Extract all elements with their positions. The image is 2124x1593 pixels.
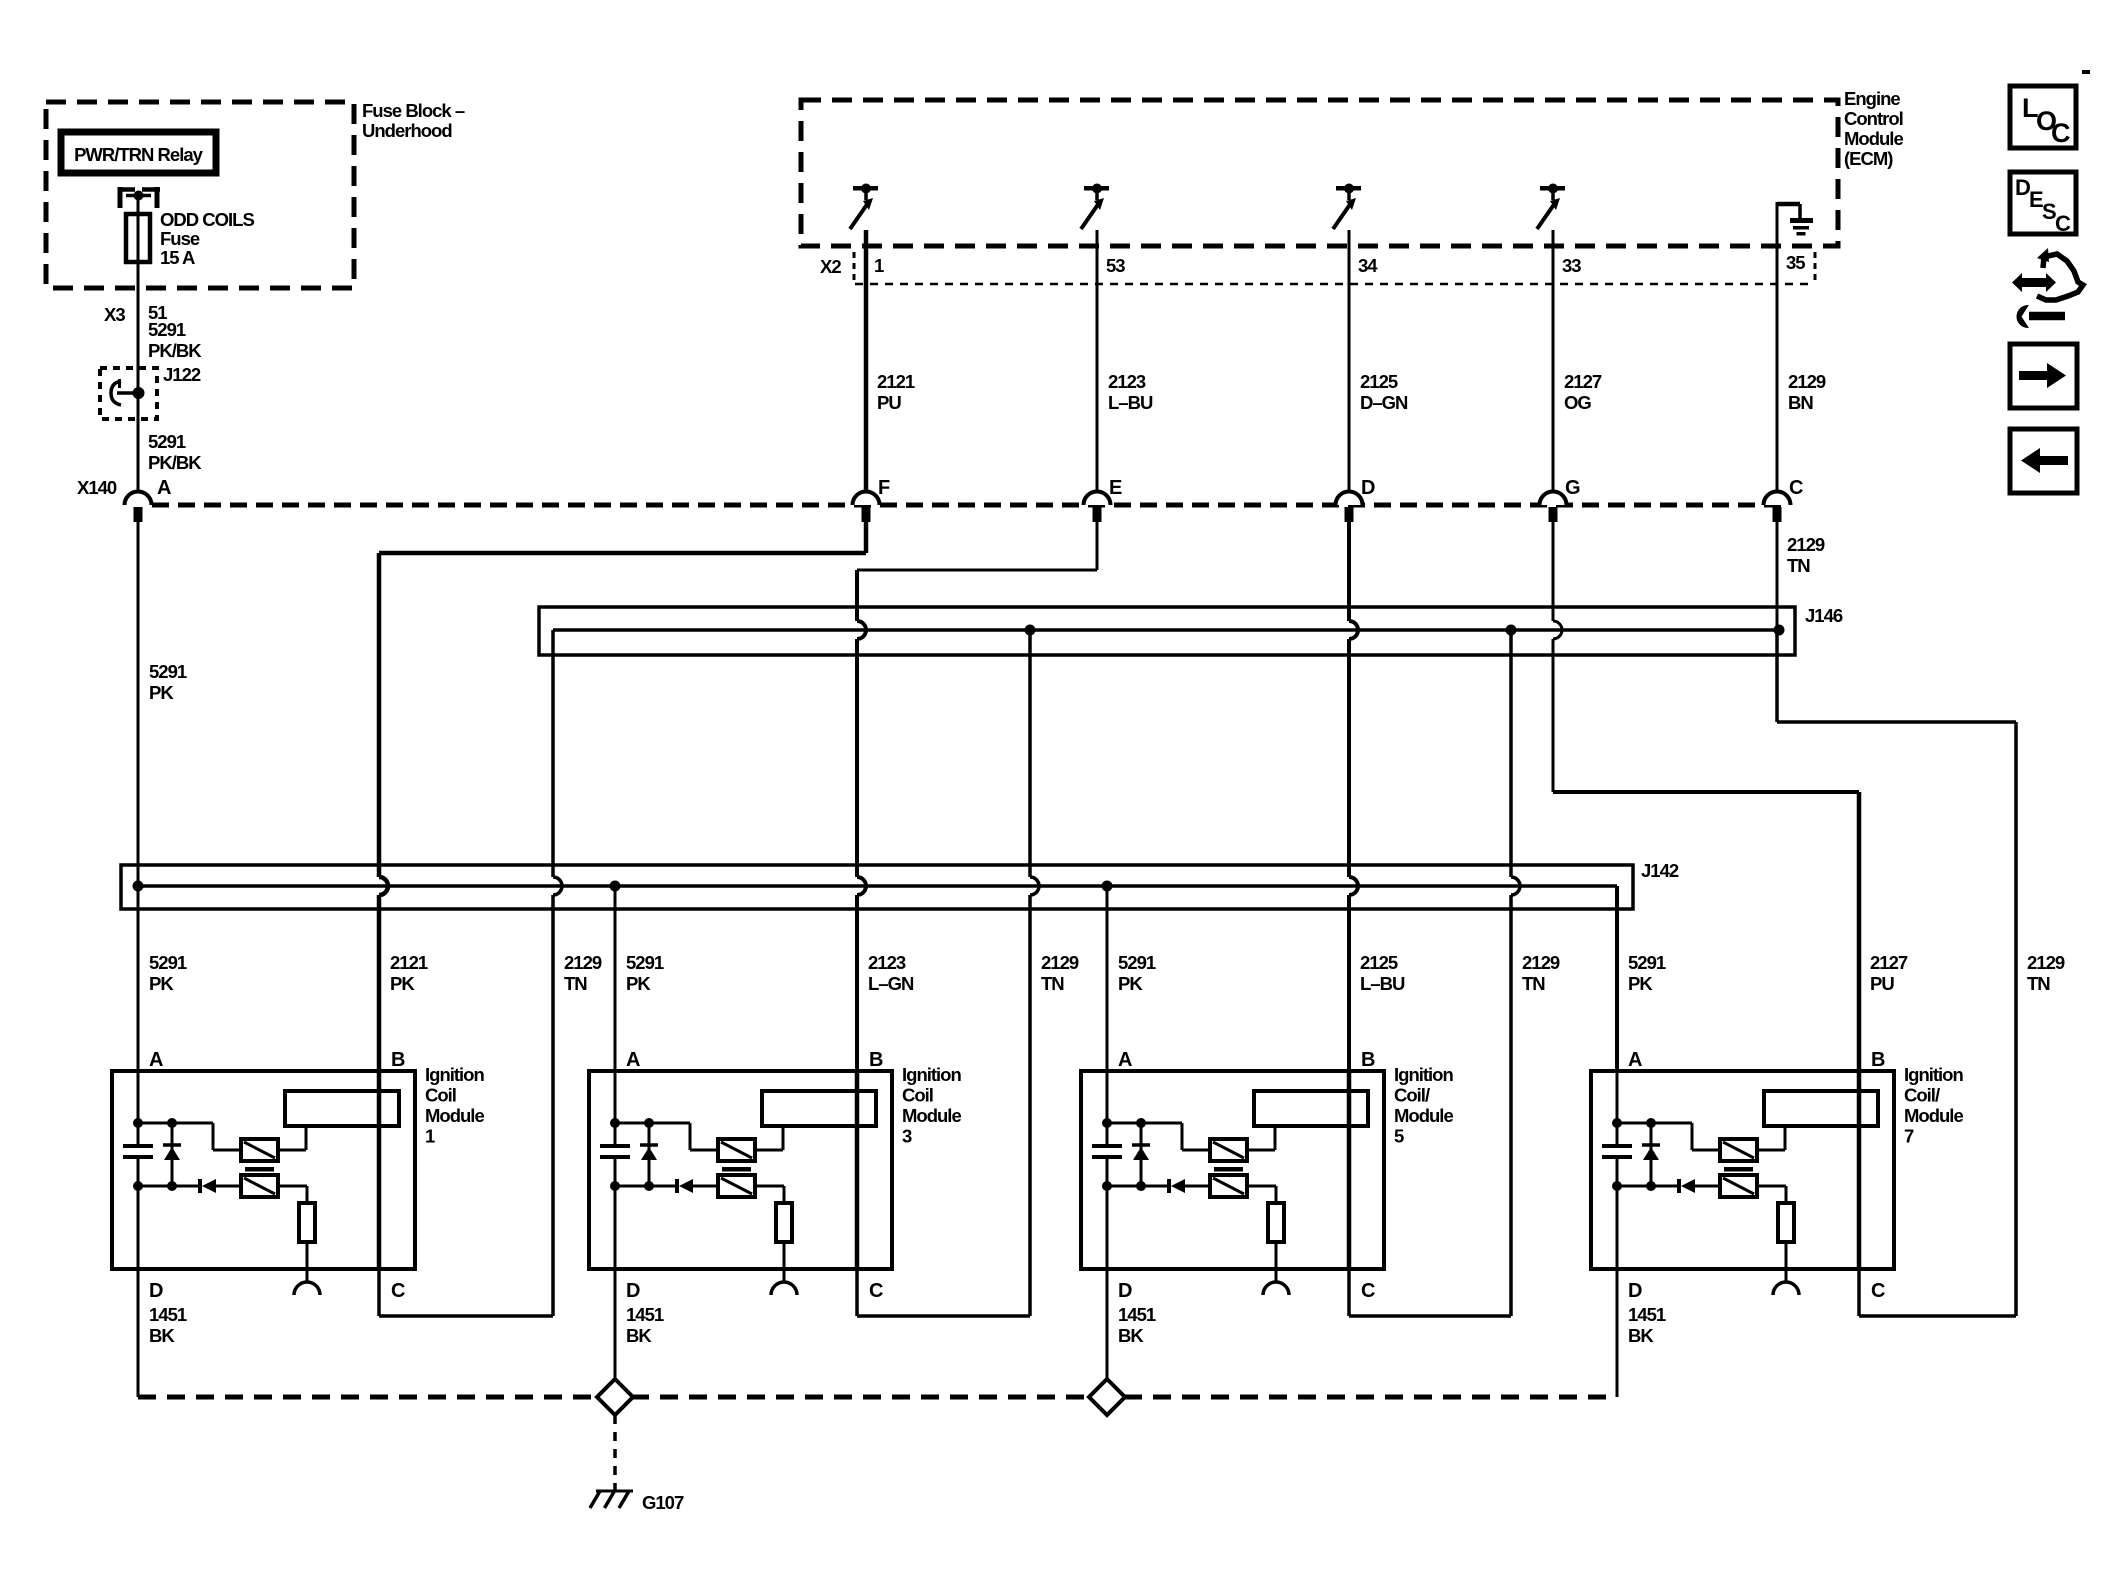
label pin A coil 5	[1118, 1049, 1132, 1071]
node coil3 cap bottom	[610, 1181, 620, 1191]
svg-text:Ignition: Ignition	[1394, 1064, 1453, 1085]
wire secondary to resistor coil 3	[755, 1186, 784, 1203]
svg-text:A: A	[157, 477, 171, 499]
label pin C coil 5	[1361, 1280, 1375, 1302]
svg-text:Coil/: Coil/	[1394, 1085, 1430, 1106]
control block coil 5	[1254, 1091, 1368, 1126]
svg-text:53: 53	[1106, 255, 1125, 276]
wire primary to control block coil 7	[1757, 1126, 1785, 1150]
X140 terminal C	[1764, 491, 1791, 522]
label X2 pin 34	[1358, 255, 1378, 276]
svg-text:A: A	[1628, 1049, 1642, 1071]
label Ignition Coil Module 5	[1394, 1064, 1453, 1147]
svg-text:1451: 1451	[1118, 1304, 1156, 1325]
svg-text:2129: 2129	[1787, 534, 1825, 555]
svg-text:2129: 2129	[1041, 952, 1079, 973]
capacitor coil 3	[600, 1146, 630, 1157]
label 2121 coil 1	[390, 952, 428, 994]
icon left arrow box	[2010, 429, 2077, 493]
svg-text:PU: PU	[1870, 973, 1894, 994]
node coil1 cap top	[133, 1118, 143, 1128]
spark plug gap coil 5	[1263, 1282, 1289, 1295]
node J142 a5 junction	[1102, 881, 1113, 892]
label X2 pin 53	[1106, 255, 1125, 276]
svg-text:1: 1	[874, 255, 884, 276]
svg-text:TN: TN	[1522, 973, 1545, 994]
svg-text:L–BU: L–BU	[1108, 392, 1153, 413]
label pin C	[1789, 477, 1803, 499]
label 5291 PK coil 7	[1628, 952, 1666, 994]
label pin A coil 1	[149, 1049, 163, 1071]
svg-text:C: C	[1361, 1280, 1375, 1302]
svg-text:D–GN: D–GN	[1360, 392, 1408, 413]
svg-text:J142: J142	[1641, 860, 1679, 881]
wire primary to control block coil 5	[1247, 1126, 1275, 1150]
ground G107 symbol	[590, 1491, 633, 1508]
label pin C coil 1	[391, 1280, 405, 1302]
wire pin B through coil 3	[855, 1071, 860, 1269]
svg-text:Module: Module	[1844, 128, 1903, 149]
label 2123 coil 3	[868, 952, 914, 994]
svg-text:J146: J146	[1805, 605, 1843, 626]
svg-text:TN: TN	[564, 973, 587, 994]
svg-text:Fuse Block –: Fuse Block –	[362, 100, 465, 121]
PWR/TRN Relay box	[61, 132, 216, 173]
wire 5291 PK to coil3 A	[614, 886, 617, 1071]
label 2129 TN riser coil 7	[2027, 952, 2065, 994]
svg-text:2127: 2127	[1564, 371, 1602, 392]
svg-text:C: C	[2051, 118, 2071, 148]
diode coil 5	[1107, 1179, 1210, 1193]
svg-text:C: C	[1789, 477, 1803, 499]
label pin C coil 7	[1871, 1280, 1885, 1302]
icon right arrow box	[2010, 344, 2077, 408]
wire diamond to G107	[613, 1415, 617, 1490]
svg-text:Ignition: Ignition	[1904, 1064, 1963, 1085]
node coil3 cap top	[610, 1118, 620, 1128]
label Fuse Block - Underhood	[362, 100, 465, 141]
label pin A	[157, 477, 171, 499]
svg-text:34: 34	[1358, 255, 1378, 276]
capacitor coil 1	[123, 1146, 153, 1157]
svg-text:35: 35	[1786, 252, 1805, 273]
label 5291 PK coil 5	[1118, 952, 1156, 994]
svg-text:X2: X2	[820, 256, 841, 277]
diode coil 1	[138, 1179, 241, 1193]
label 2127 OG	[1564, 371, 1602, 413]
wire pin C drop coil 3	[855, 1269, 859, 1316]
wire pin A feed coil 3	[614, 1071, 617, 1269]
wire pin B through coil 5	[1347, 1071, 1352, 1269]
wire pin C drop coil 5	[1347, 1269, 1351, 1316]
label pin D coil 1	[149, 1280, 163, 1302]
svg-text:BK: BK	[1628, 1325, 1654, 1346]
label X2 pin 33	[1562, 255, 1581, 276]
svg-text:5291: 5291	[1628, 952, 1666, 973]
zener diode coil 5	[1132, 1123, 1150, 1186]
Engine Control Module dashed enclosure	[801, 100, 1838, 246]
wire 2125 D straight	[1349, 522, 1358, 1071]
svg-text:C: C	[869, 1280, 883, 1302]
label pin B coil 5	[1361, 1049, 1375, 1071]
label 1451 BK coil 7	[1628, 1304, 1666, 1346]
label pin G	[1565, 477, 1581, 499]
splice diamond coil3 ground	[597, 1379, 633, 1415]
svg-text:PK: PK	[626, 973, 651, 994]
node J146 r5 junction	[1506, 625, 1517, 636]
svg-text:2129: 2129	[564, 952, 602, 973]
spark plug gap coil 7	[1773, 1282, 1799, 1295]
svg-text:15 A: 15 A	[160, 247, 195, 268]
svg-text:PK: PK	[149, 973, 174, 994]
svg-text:Module: Module	[1394, 1105, 1453, 1126]
capacitor coil 7	[1602, 1146, 1632, 1157]
label 5291 PK feed	[149, 661, 187, 703]
wire 2129 TN path coil7	[1777, 630, 2016, 1316]
transformer secondary coil 3	[718, 1175, 755, 1197]
splice J142 inner conductor	[138, 886, 1617, 1071]
svg-text:PK: PK	[390, 973, 415, 994]
splice J122 terminal	[111, 379, 145, 405]
icon double arrow	[2012, 273, 2056, 292]
wire 2129 BN pin35 to X140-C	[1776, 246, 1779, 492]
label 2127 coil 7	[1870, 952, 1908, 994]
label 2129 TN upper	[1787, 534, 1825, 576]
capacitor coil 5	[1092, 1146, 1122, 1157]
svg-text:L–BU: L–BU	[1360, 973, 1405, 994]
wire 2127 OG pin33 to X140-G	[1552, 230, 1555, 492]
svg-text:C: C	[391, 1280, 405, 1302]
spark plug gap coil 1	[294, 1282, 320, 1295]
svg-text:Ignition: Ignition	[902, 1064, 961, 1085]
wire pin D to ground bus coil 1	[137, 1269, 140, 1397]
svg-text:C: C	[1871, 1280, 1885, 1302]
svg-text:A: A	[1118, 1049, 1132, 1071]
splice J146 housing	[539, 607, 1795, 655]
wire fuse to X140-A	[137, 262, 140, 492]
svg-text:(ECM): (ECM)	[1844, 148, 1893, 169]
wire primary to control block coil 1	[278, 1126, 306, 1150]
control block coil 3	[762, 1091, 876, 1126]
svg-text:2123: 2123	[868, 952, 906, 973]
ignition coil module 3 box	[589, 1071, 892, 1269]
label 1451 BK coil 3	[626, 1304, 664, 1346]
svg-text:Module: Module	[425, 1105, 484, 1126]
wire cap to primary coil 7	[1617, 1123, 1720, 1150]
label Engine Control Module (ECM)	[1844, 88, 1903, 169]
label pin 51	[148, 302, 167, 323]
svg-text:2129: 2129	[1788, 371, 1826, 392]
svg-text:D: D	[1361, 477, 1375, 499]
label Ignition Coil Module 7	[1904, 1064, 1963, 1147]
ignition coil module 5 box	[1081, 1071, 1384, 1269]
wire pin C drop coil 1	[377, 1269, 381, 1316]
svg-text:PU: PU	[877, 392, 901, 413]
wire 2129 TN X140-C to J146	[1776, 522, 1779, 630]
wire pin D to ground bus coil 7	[1616, 1269, 1619, 1397]
wire pin B through coil 1	[377, 1071, 382, 1269]
zener diode coil 3	[640, 1123, 658, 1186]
label 2129 TN riser coil 5	[1522, 952, 1560, 994]
svg-text:C: C	[2055, 211, 2071, 236]
wire resistor to spark gap coil 3	[783, 1242, 786, 1282]
svg-text:3: 3	[902, 1126, 912, 1147]
zener diode coil 1	[163, 1123, 181, 1186]
svg-text:Coil: Coil	[902, 1085, 933, 1106]
wire 2121 PU pin1 to X140-F	[864, 230, 869, 492]
svg-text:B: B	[391, 1049, 405, 1071]
svg-text:2125: 2125	[1360, 371, 1398, 392]
node J146 right junction	[1774, 625, 1785, 636]
svg-text:Coil/: Coil/	[1904, 1085, 1940, 1106]
svg-text:TN: TN	[2027, 973, 2050, 994]
transformer primary coil 3	[718, 1139, 755, 1161]
svg-text:2127: 2127	[1870, 952, 1908, 973]
ignition coil module 7 box	[1591, 1071, 1894, 1269]
svg-text:2129: 2129	[1522, 952, 1560, 973]
svg-text:BN: BN	[1788, 392, 1813, 413]
wire 2129 TN riser coil1	[379, 630, 562, 1316]
svg-text:7: 7	[1904, 1126, 1914, 1147]
label J146	[1805, 605, 1843, 626]
transformer core coil 1	[245, 1167, 274, 1172]
wire 2121 staircase F	[379, 522, 866, 1071]
svg-text:X140: X140	[77, 477, 117, 498]
spark plug gap coil 3	[771, 1282, 797, 1295]
transformer primary coil 7	[1720, 1139, 1757, 1161]
svg-text:2121: 2121	[390, 952, 428, 973]
svg-text:Fuse: Fuse	[160, 228, 200, 249]
X140 connector row dashed line	[152, 503, 1790, 508]
wire cap to primary coil 1	[138, 1123, 241, 1150]
svg-text:5291: 5291	[149, 952, 187, 973]
node coil5 zener bottom	[1136, 1181, 1146, 1191]
label 2121 PU	[877, 371, 915, 413]
label G107	[642, 1492, 684, 1513]
label 2129 TN riser coil 3	[1041, 952, 1079, 994]
svg-text:G: G	[1565, 477, 1581, 499]
wire pin A feed coil 5	[1106, 1071, 1109, 1269]
splice J146 inner conductor	[553, 628, 1779, 632]
svg-text:PWR/TRN Relay: PWR/TRN Relay	[74, 144, 204, 165]
label 5291 PK/BK upper	[148, 319, 202, 361]
ignition coil module 1 box	[112, 1071, 415, 1269]
svg-text:ODD COILS: ODD COILS	[160, 209, 254, 230]
svg-text:X3: X3	[104, 304, 125, 325]
label X2 pin 1	[874, 255, 884, 276]
icon LOC box	[2010, 86, 2076, 148]
label 2125 coil 5	[1360, 952, 1405, 994]
svg-text:Ignition: Ignition	[425, 1064, 484, 1085]
label pin B coil 3	[869, 1049, 883, 1071]
control block coil 1	[285, 1091, 399, 1126]
X140 terminal E	[1084, 491, 1111, 522]
svg-text:5291: 5291	[148, 431, 186, 452]
wire pin B through coil 7	[1857, 1071, 1862, 1269]
transformer primary coil 1	[241, 1139, 278, 1161]
svg-text:PK: PK	[1118, 973, 1143, 994]
svg-text:L–GN: L–GN	[868, 973, 914, 994]
label 2125 D-GN	[1360, 371, 1408, 413]
svg-text:1451: 1451	[149, 1304, 187, 1325]
ECM driver switch pin 53	[1081, 184, 1109, 230]
svg-text:2121: 2121	[877, 371, 915, 392]
label pin D	[1361, 477, 1375, 499]
svg-text:Module: Module	[902, 1105, 961, 1126]
wire pin C drop coil 7	[1857, 1269, 1861, 1316]
label J142	[1641, 860, 1679, 881]
wire secondary to resistor coil 5	[1247, 1186, 1276, 1203]
svg-text:Module: Module	[1904, 1105, 1963, 1126]
label 2129 BN	[1788, 371, 1826, 413]
svg-text:Control: Control	[1844, 108, 1903, 129]
node coil7 zener top	[1646, 1118, 1656, 1128]
wire 2123 L-BU pin53 to X140-E	[1096, 230, 1099, 492]
label pin D coil 5	[1118, 1280, 1132, 1302]
svg-text:2123: 2123	[1108, 371, 1146, 392]
label pin B coil 1	[391, 1049, 405, 1071]
node coil7 cap top	[1612, 1118, 1622, 1128]
resistor coil 5	[1268, 1203, 1284, 1242]
transformer core coil 7	[1724, 1167, 1753, 1172]
svg-text:2125: 2125	[1360, 952, 1398, 973]
svg-text:J122: J122	[163, 364, 201, 385]
icon wrench	[2017, 306, 2065, 328]
label X3	[104, 304, 125, 325]
label X2 pin 35	[1786, 252, 1805, 273]
transformer primary coil 5	[1210, 1139, 1247, 1161]
node J142 A junction	[133, 881, 144, 892]
wire pin A feed coil 7	[1616, 1071, 1619, 1269]
X140 terminal G	[1540, 491, 1567, 522]
node J146 r3 junction	[1025, 625, 1036, 636]
label 1451 BK coil 1	[149, 1304, 187, 1346]
label 1451 BK coil 5	[1118, 1304, 1156, 1346]
svg-text:B: B	[1871, 1049, 1885, 1071]
svg-text:PK: PK	[149, 682, 174, 703]
label X140	[77, 477, 117, 498]
resistor coil 3	[776, 1203, 792, 1242]
node coil5 cap bottom	[1102, 1181, 1112, 1191]
svg-text:B: B	[1361, 1049, 1375, 1071]
svg-text:PK: PK	[1628, 973, 1653, 994]
wire cap to primary coil 5	[1107, 1123, 1210, 1150]
icon vehicle outline	[2037, 248, 2083, 300]
svg-text:PK/BK: PK/BK	[148, 452, 202, 473]
svg-text:2129: 2129	[2027, 952, 2065, 973]
wire secondary to resistor coil 1	[278, 1186, 307, 1203]
label pin C coil 3	[869, 1280, 883, 1302]
resistor coil 7	[1778, 1203, 1794, 1242]
svg-text:5: 5	[1394, 1126, 1404, 1147]
svg-text:TN: TN	[1041, 973, 1064, 994]
label pin E	[1109, 477, 1122, 499]
svg-text:5291: 5291	[626, 952, 664, 973]
icon speck	[2082, 70, 2090, 74]
wire relay to fuse	[137, 195, 140, 216]
node coil1 zener top	[167, 1118, 177, 1128]
label pin D coil 7	[1628, 1280, 1642, 1302]
label Ignition Coil Module 3	[902, 1064, 961, 1147]
diode coil 3	[615, 1179, 718, 1193]
wire 2127 staircase G	[1553, 522, 1859, 1071]
label pin F	[878, 477, 890, 499]
wire 2129 TN riser coil5	[1349, 630, 1520, 1316]
wire pin D to ground bus coil 5	[1106, 1269, 1109, 1397]
svg-text:A: A	[149, 1049, 163, 1071]
node coil5 cap top	[1102, 1118, 1112, 1128]
svg-text:E: E	[1109, 477, 1122, 499]
label ODD COILS Fuse 15 A	[160, 209, 254, 268]
wire pin D to ground bus coil 3	[614, 1269, 617, 1397]
transformer core coil 3	[722, 1167, 751, 1172]
svg-text:F: F	[878, 477, 890, 499]
X140 terminal F	[853, 491, 880, 522]
svg-text:5291: 5291	[149, 661, 187, 682]
wire 2123 staircase E	[857, 522, 1097, 1071]
svg-text:OG: OG	[1564, 392, 1591, 413]
wire pin A feed coil 1	[137, 1071, 140, 1269]
node coil7 cap bottom	[1612, 1181, 1622, 1191]
svg-text:PK/BK: PK/BK	[148, 340, 202, 361]
splice J122 box	[100, 364, 201, 419]
control block coil 7	[1764, 1091, 1878, 1126]
wire 2125 D-GN pin34 to X140-D	[1348, 230, 1351, 492]
zener diode coil 7	[1642, 1123, 1660, 1186]
svg-text:1451: 1451	[626, 1304, 664, 1325]
transformer secondary coil 5	[1210, 1175, 1247, 1197]
ECM driver switch pin 1	[850, 184, 878, 230]
resistor coil 1	[299, 1203, 315, 1242]
diode coil 7	[1617, 1179, 1720, 1193]
wire resistor to spark gap coil 7	[1785, 1242, 1788, 1282]
transformer core coil 5	[1214, 1167, 1243, 1172]
svg-text:G107: G107	[642, 1492, 684, 1513]
svg-text:BK: BK	[1118, 1325, 1144, 1346]
svg-text:Engine: Engine	[1844, 88, 1900, 109]
label pin A coil 3	[626, 1049, 640, 1071]
node coil3 zener bottom	[644, 1181, 654, 1191]
wire primary to control block coil 3	[755, 1126, 783, 1150]
wire 5291 PK to coil5 A	[1106, 886, 1109, 1071]
ECM internal ground pin 35	[1777, 202, 1813, 246]
wire cap to primary coil 3	[615, 1123, 718, 1150]
node coil7 zener bottom	[1646, 1181, 1656, 1191]
svg-text:B: B	[869, 1049, 883, 1071]
ECM driver switch pin 33	[1537, 184, 1565, 230]
wire 2129 TN riser coil3	[857, 630, 1039, 1316]
label pin B coil 7	[1871, 1049, 1885, 1071]
splice diamond coil5 ground	[1089, 1379, 1125, 1415]
label 5291 PK/BK lower	[148, 431, 202, 473]
X2 connector row	[820, 252, 1815, 284]
label pin D coil 3	[626, 1280, 640, 1302]
svg-text:Coil: Coil	[425, 1085, 456, 1106]
splice J142 housing	[121, 865, 1633, 909]
label 5291 PK coil 1	[149, 952, 187, 994]
label pin A coil 7	[1628, 1049, 1642, 1071]
wire resistor to spark gap coil 1	[306, 1242, 309, 1282]
ground bus 1451 BK dashed	[138, 1395, 1617, 1400]
svg-text:D: D	[1118, 1280, 1132, 1302]
icon DESC box	[2010, 172, 2076, 236]
svg-text:1: 1	[425, 1126, 435, 1147]
svg-text:BK: BK	[626, 1325, 652, 1346]
svg-text:33: 33	[1562, 255, 1581, 276]
svg-text:D: D	[149, 1280, 163, 1302]
label 2123 L-BU	[1108, 371, 1153, 413]
node coil3 zener top	[644, 1118, 654, 1128]
